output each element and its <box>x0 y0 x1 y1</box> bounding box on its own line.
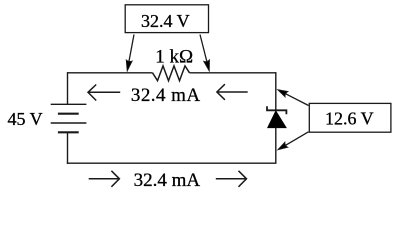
svg-text:1 kΩ: 1 kΩ <box>155 46 193 67</box>
arrow from 32.4V box to left of resistor <box>126 35 134 72</box>
wire right vertical (bottom) <box>275 128 277 164</box>
svg-text:32.4 mA: 32.4 mA <box>131 85 201 106</box>
zener diode D1 cathode bar <box>267 106 286 114</box>
box 32.4 V (top annotation box) <box>125 5 208 33</box>
wire left vertical (top) <box>67 72 69 104</box>
svg-text:32.4 V: 32.4 V <box>141 11 190 31</box>
svg-text:45 V: 45 V <box>8 109 43 129</box>
zener diode D1 anode triangle <box>268 111 286 127</box>
wire top right segment <box>190 72 276 74</box>
svg-text:12.6 V: 12.6 V <box>325 108 374 128</box>
wire top (left segment, through resistor, to right corner) <box>68 72 153 74</box>
battery B1 45 V <box>51 104 87 132</box>
wire right vertical (top) <box>275 72 277 110</box>
resistor R1 1 kOhm zigzag <box>153 66 190 81</box>
wire left vertical (bottom) <box>67 132 69 164</box>
current arrow top-left (pointing left) <box>88 85 120 101</box>
arrow from 12.6V box to diode bottom <box>278 132 309 150</box>
current arrow bottom-right (pointing right) <box>216 171 247 187</box>
arrow from 12.6V box to diode top <box>278 90 309 106</box>
wire bottom <box>67 162 277 164</box>
current arrow top-right (pointing left) <box>217 84 248 100</box>
svg-text:32.4 mA: 32.4 mA <box>134 170 201 191</box>
box 12.6 V (right annotation box) <box>309 103 391 132</box>
current arrow bottom-left (pointing right) <box>89 171 120 187</box>
arrow from 32.4V box to right of resistor <box>200 35 210 72</box>
